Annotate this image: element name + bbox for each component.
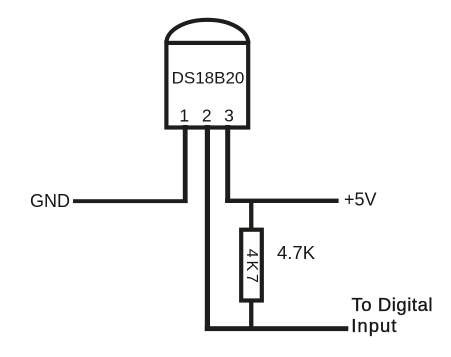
svg-text:GND: GND [30,191,70,211]
svg-text:+5V: +5V [344,189,377,209]
wire pin 3 leg [225,125,230,203]
resistor R1 body [241,230,262,301]
wire bottom data line [205,326,348,331]
svg-text:DS18B20: DS18B20 [172,69,245,88]
wire pin 1 leg [183,125,188,203]
svg-text:3: 3 [224,106,234,126]
wire through resistor [249,200,253,330]
svg-text:To Digital: To Digital [352,294,434,315]
svg-text:4K7: 4K7 [243,249,260,286]
wire pin 2 leg [205,125,210,331]
svg-text:2: 2 [202,106,212,126]
wire +5V horizontal [225,199,338,203]
wire GND horizontal [73,199,188,203]
svg-text:1: 1 [179,106,189,126]
svg-text:Input: Input [351,315,397,336]
svg-text:4.7K: 4.7K [277,242,316,263]
transistor U1 DS18B20 TO-92 body [166,20,248,128]
